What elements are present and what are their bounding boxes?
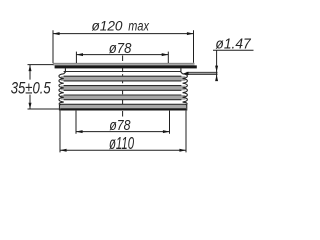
centerline [122,56,124,119]
ceramic body fin shading bands [61,76,186,100]
gate lead wire (diameter 1.47) [183,72,217,75]
svg-text:ø1.47: ø1.47 [215,36,251,53]
dimension diameter 120 max [53,18,194,63]
dimension diameter 78 (top) [76,40,168,63]
svg-text:ø78: ø78 [109,40,132,57]
svg-text:ø110: ø110 [109,133,134,153]
flange (top plate, diameter 120 max) [53,63,197,69]
ceramic body left rib bumps [59,74,64,105]
svg-text:35±0.5: 35±0.5 [11,79,52,98]
svg-text:ø120: ø120 [92,18,123,34]
dimension 35 plus-minus 0.5 (height) [11,65,59,110]
bottom plate (diameter 110) [59,104,186,110]
ceramic body fin lines [64,72,182,100]
svg-text:max: max [128,18,149,34]
svg-text:ø78: ø78 [109,117,131,134]
ceramic body neck [64,68,183,74]
dimension diameter 1.47 (gate lead) [213,36,254,82]
ceramic body right rib bumps [183,74,188,105]
dimension diameter 110 (bottom plate) [60,111,186,153]
dimension diameter 78 (bottom) [76,111,170,135]
